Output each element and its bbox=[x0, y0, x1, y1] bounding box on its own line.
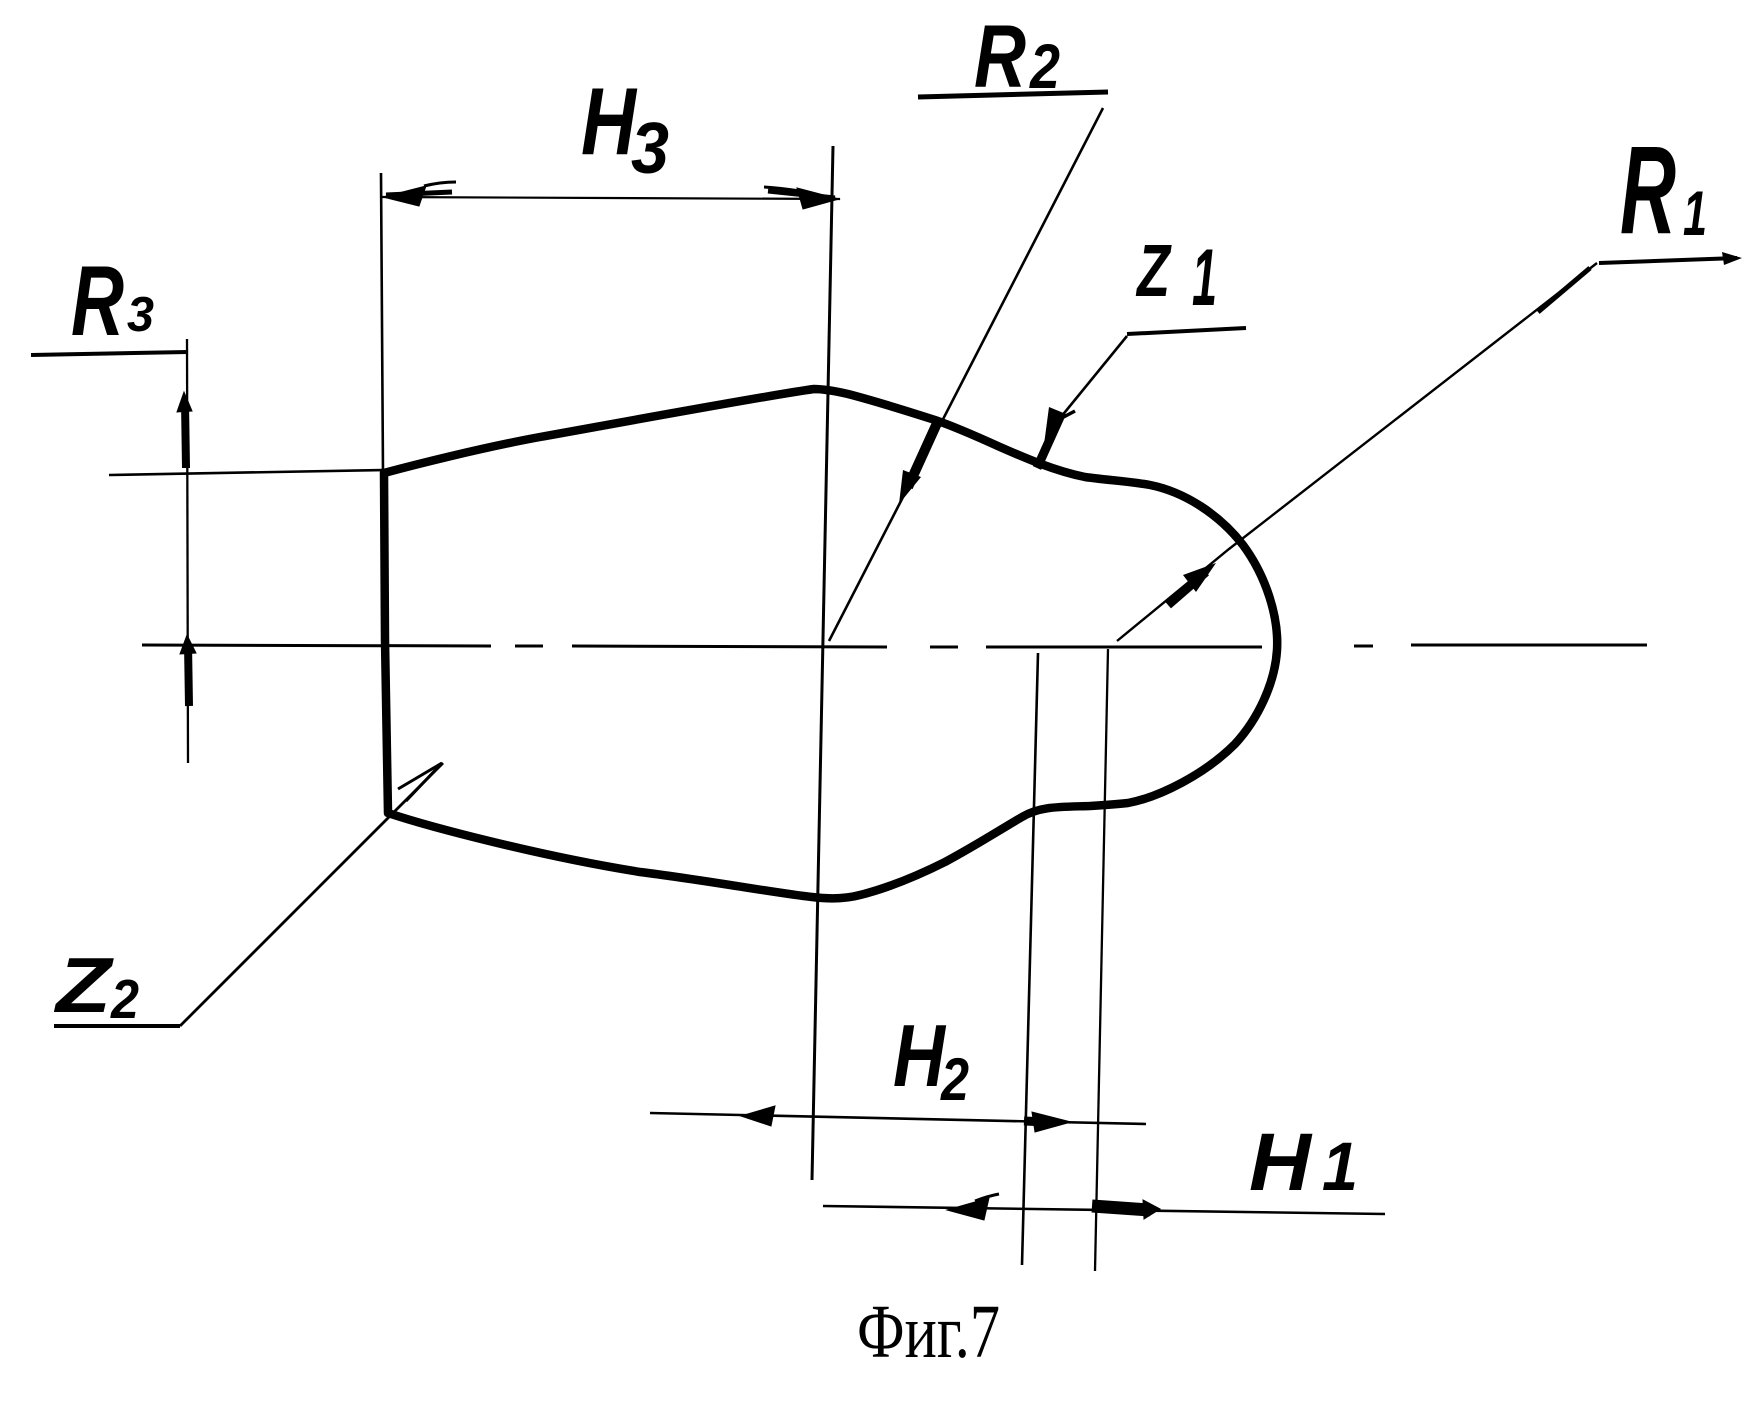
svg-text:2: 2 bbox=[1029, 32, 1060, 102]
svg-text:H: H bbox=[1249, 1117, 1313, 1208]
svg-text:R: R bbox=[71, 245, 124, 356]
svg-text:3: 3 bbox=[127, 288, 154, 342]
svg-text:3: 3 bbox=[631, 109, 669, 189]
svg-text:2: 2 bbox=[940, 1046, 969, 1113]
svg-text:1: 1 bbox=[1192, 233, 1217, 323]
svg-text:Z: Z bbox=[54, 941, 115, 1029]
svg-text:H: H bbox=[893, 1006, 947, 1105]
svg-text:1: 1 bbox=[1683, 179, 1707, 249]
svg-text:2: 2 bbox=[110, 968, 139, 1030]
svg-text:Z: Z bbox=[1136, 229, 1173, 312]
svg-text:Фиг.7: Фиг.7 bbox=[857, 1290, 1000, 1374]
svg-text:1: 1 bbox=[1322, 1128, 1358, 1205]
svg-text:H: H bbox=[581, 68, 637, 175]
svg-text:R: R bbox=[974, 6, 1026, 106]
svg-text:R: R bbox=[1620, 121, 1676, 260]
